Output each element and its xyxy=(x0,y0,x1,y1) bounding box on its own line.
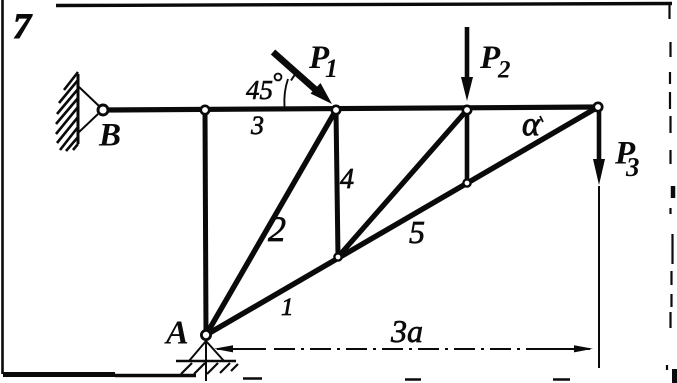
svg-text:α: α xyxy=(522,106,541,143)
svg-text:A: A xyxy=(164,315,189,352)
extension line left (below A) xyxy=(205,341,207,381)
node N4 xyxy=(594,103,602,111)
support bracket at B xyxy=(78,86,99,133)
force P3 arrow xyxy=(593,110,605,185)
node B (pin circle) xyxy=(98,105,108,115)
member 4 (N2 to D) xyxy=(336,110,338,257)
ground line at A xyxy=(176,360,236,362)
frame bottom border xyxy=(3,372,115,377)
svg-text:45: 45 xyxy=(246,75,273,105)
svg-text:3: 3 xyxy=(625,152,640,182)
wall line at B xyxy=(77,74,80,144)
svg-text:3: 3 xyxy=(250,111,264,140)
svg-text:5: 5 xyxy=(409,214,425,250)
vertical member N1-A xyxy=(205,110,206,335)
ground hatching at A xyxy=(181,363,238,374)
svg-text:1: 1 xyxy=(281,294,294,321)
member 2 (A to N2) xyxy=(206,110,336,335)
svg-text:B: B xyxy=(98,118,121,154)
wall hatching at B xyxy=(56,72,78,151)
node A (pin circle) xyxy=(201,330,210,339)
top chord member B-N4 xyxy=(103,107,598,110)
frame top border xyxy=(56,4,672,6)
extension line right (below P3) xyxy=(598,186,600,368)
node N1 xyxy=(201,106,209,114)
frame right edge marks xyxy=(667,4,673,370)
diagonal member D-N3 xyxy=(338,110,467,257)
force P2 arrow xyxy=(461,27,473,101)
force P1 arrow xyxy=(273,52,332,104)
members 1 and 5: long diagonal A-D-E-N4 xyxy=(206,107,598,335)
svg-text:7: 7 xyxy=(13,6,33,46)
svg-text:3a: 3a xyxy=(390,313,423,349)
node E xyxy=(463,179,470,186)
hanger member N3-E xyxy=(465,110,470,183)
node N2 xyxy=(332,106,340,114)
dimension line 3a (dash-dot) xyxy=(217,348,266,350)
frame left border xyxy=(1,0,4,374)
support A triangle xyxy=(189,341,224,361)
dimension arrow right xyxy=(574,345,593,352)
dimension arrow left xyxy=(214,345,233,352)
node N3 xyxy=(463,106,471,114)
svg-text:2: 2 xyxy=(268,209,286,249)
45 degree reference dash xyxy=(291,71,298,81)
svg-text:2: 2 xyxy=(497,57,511,84)
svg-text:1: 1 xyxy=(325,54,338,83)
node D xyxy=(334,253,341,260)
svg-text:4: 4 xyxy=(340,164,354,195)
angle arc 45 xyxy=(284,79,288,107)
